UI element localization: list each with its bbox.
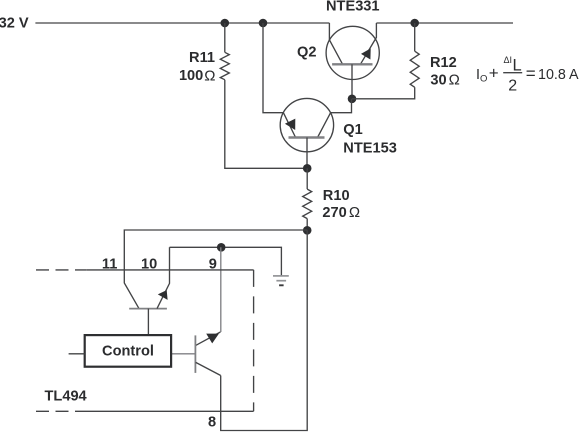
wire 32V rail left segment [35,22,329,24]
svg-text:Ω: Ω [449,72,460,89]
svg-text:Control: Control [102,344,154,360]
svg-text:L: L [513,57,522,75]
resistor R11 [220,52,229,79]
node junction dot D5 (Q1 base / R10 top) [303,164,312,173]
svg-text:R12: R12 [430,55,457,71]
svg-text:R11: R11 [189,50,215,66]
svg-text:+: + [489,64,499,83]
svg-text:TL494: TL494 [45,388,88,404]
svg-text:10.8 A: 10.8 A [538,67,579,83]
resistor R12 [410,51,419,87]
node junction dot D7 (pin 9 tap) [217,243,226,252]
wire pin 10/9 emitter line to ground [170,247,282,275]
wire R12 top lead [414,23,416,51]
svg-text:10: 10 [141,257,157,273]
transistor internal B base stub from Control [171,353,195,355]
svg-text:8: 8 [208,415,216,431]
svg-text:R10: R10 [323,188,350,204]
wire R11 bottom to Q1 base node [225,80,307,169]
svg-text:9: 9 [209,257,217,273]
svg-text:32 V: 32 V [0,16,29,32]
node junction dot D1 (R11 top) [221,19,230,28]
svg-text:Q2: Q2 [297,45,316,61]
wire R11 top lead [224,23,226,52]
svg-text:=: = [526,64,536,83]
wire 32V rail right (Q2 emitter/output) segment [376,22,513,24]
Control block [85,335,171,367]
transistor Q2 [326,26,379,79]
svg-text:11: 11 [102,257,117,273]
wire R10 top lead [306,168,308,189]
svg-text:ΔI: ΔI [504,55,513,65]
TL494 dashed boundary right [253,270,255,411]
equation Io + dIL/2 = 10.8 A [476,55,579,94]
resistor R10 [303,189,312,219]
svg-text:Ω: Ω [349,204,360,221]
wire pin 9 vertical to internal transistor B emitter [220,247,222,332]
transistor internal A emitter to pin 10 [157,247,170,308]
ground [273,276,289,285]
TL494 dashed boundary top [36,269,87,271]
node junction dot D6 (R10 bottom) [303,226,312,235]
transistor internal B base bar [194,335,196,373]
transistor internal B collector to pin 8 [196,362,221,375]
svg-text:Q1: Q1 [343,122,362,138]
svg-text:2: 2 [508,78,517,95]
svg-text:IO: IO [476,67,487,85]
node junction dot D4 (Q2 base node) [348,95,357,104]
wire R10 bottom lead [306,219,308,231]
TL494 dashed boundary bottom [36,410,86,412]
svg-text:30: 30 [430,72,446,88]
svg-text:270: 270 [322,205,346,221]
svg-text:NTE153: NTE153 [343,141,397,157]
node junction dot D3 (R12 top) [410,19,419,28]
wire Q2 base node to R12 bottom [352,87,415,99]
transistor internal A base lead to Control [147,309,149,336]
transistor internal A base bar [129,308,167,310]
wire R10 bottom node down to pin8 route [221,230,308,430]
wire pin 11 line (C2 to R10 bottom) [124,230,307,309]
svg-text:100: 100 [179,68,203,84]
svg-text:Ω: Ω [204,67,215,84]
node junction dot D2 (Q1 emitter) [259,19,268,28]
transistor Q1 [280,98,333,151]
svg-text:NTE331: NTE331 [326,0,380,14]
wire Control left stub [69,353,85,355]
